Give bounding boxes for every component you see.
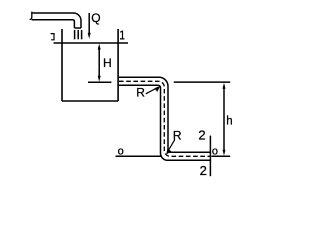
svg-text:h: h (226, 116, 232, 128)
svg-text:R: R (173, 129, 182, 143)
svg-text:o: o (212, 145, 218, 157)
svg-text:H: H (103, 56, 112, 70)
svg-text:Q: Q (91, 11, 100, 25)
svg-text:o: o (118, 145, 124, 157)
svg-text:2: 2 (200, 163, 207, 178)
svg-text:R: R (136, 86, 145, 100)
svg-text:2: 2 (198, 128, 205, 143)
